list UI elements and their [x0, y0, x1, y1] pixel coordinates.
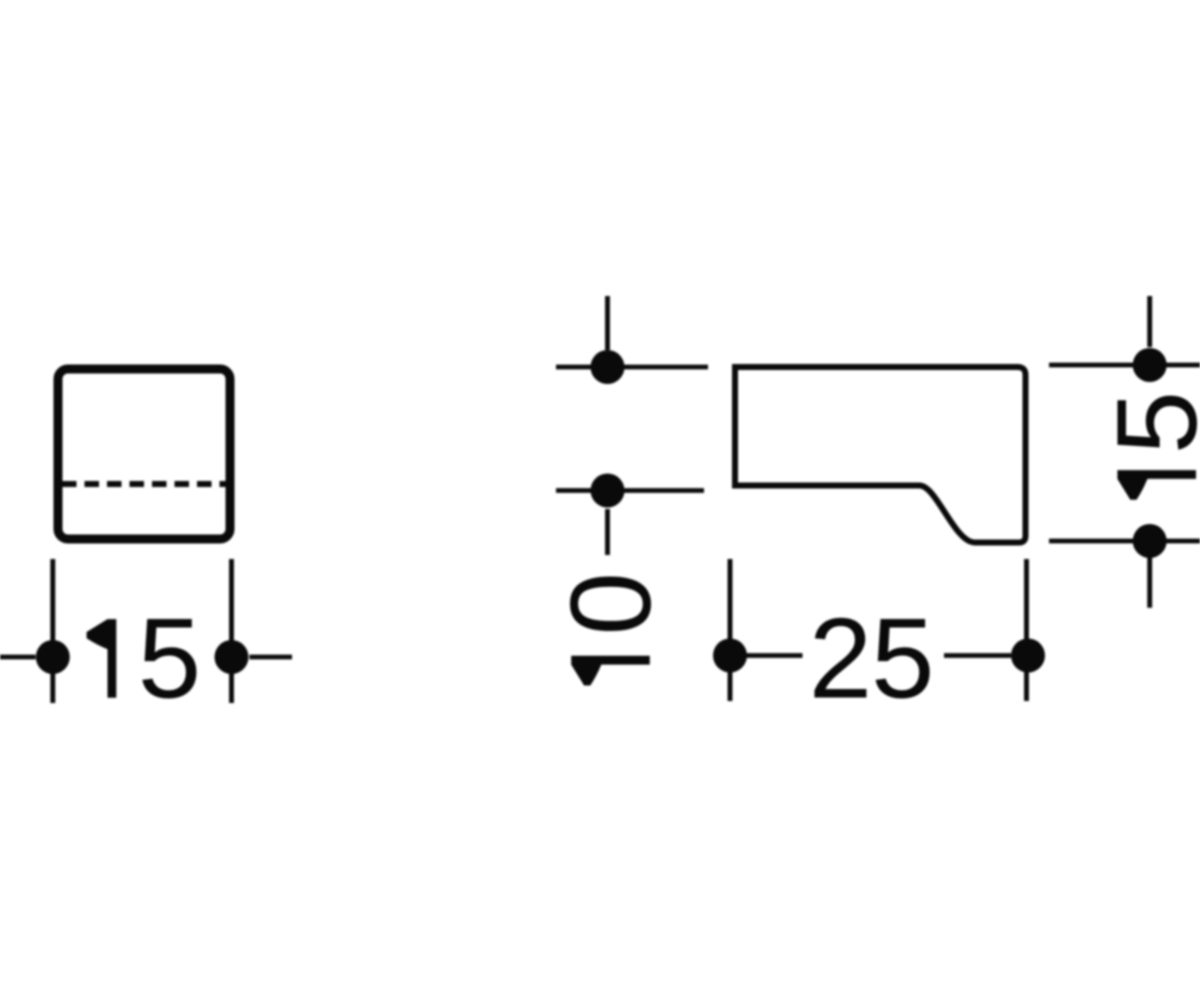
svg-text:5: 5 — [871, 596, 934, 723]
svg-text:5: 5 — [1094, 391, 1200, 454]
svg-text:5: 5 — [138, 596, 201, 723]
svg-text:2: 2 — [809, 596, 872, 723]
svg-text:0: 0 — [548, 572, 675, 635]
